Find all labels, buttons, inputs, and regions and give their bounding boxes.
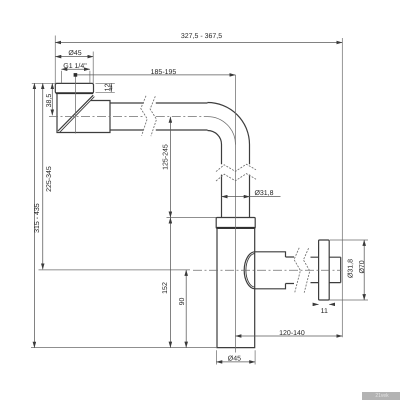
wedge diagonal 2 [60,97,95,133]
svg-text:185-195: 185-195 [151,69,177,76]
dim 125-245 [169,117,171,217]
elbow body [57,93,110,132]
svg-text:Ø70: Ø70 [358,260,366,273]
svg-text:Ø45: Ø45 [228,354,241,362]
inlet pipe bottom wire [110,129,208,131]
outlet pipe break zigzag 2 [303,248,309,293]
outlet nut dome outer arc [244,252,255,289]
vertical pipe left wire [221,175,223,218]
ext cup bottom right [254,350,256,364]
dim 315-435 [33,83,35,347]
dim 120-140 [236,335,343,337]
ext top-left vertical [54,36,56,84]
outlet pipe end edge [340,257,342,282]
elbow outer arc [208,103,250,165]
dim 90 [185,270,187,348]
cup body [217,228,255,347]
outlet pipe top wire [286,256,341,258]
dim 38,5 [51,83,53,115]
dim Ø31,8 tail [250,196,281,198]
outlet centerline [193,269,342,271]
watermark text [371,393,393,399]
vertical centerline [234,75,236,353]
wedge diagonal 1 [58,95,93,131]
svg-text:11: 11 [321,308,328,315]
dim 185-195 origin dot [74,73,78,77]
vertical pipe break zigzag 2 [216,174,256,181]
dim Ø31,8 vertical pipe [222,196,250,198]
vertical pipe break zigzag 1 [216,164,256,171]
elbow centerline arc [208,117,236,145]
svg-text:125-245: 125-245 [163,144,170,170]
dim 12 [110,83,112,92]
dim G1 1/4 [61,68,90,70]
dim 225-345 [42,83,44,269]
inlet pipe break zigzag 2 [150,96,156,136]
ext 12 bottom [96,91,115,93]
ext cup bottom left [215,350,217,364]
inlet pipe break zigzag 1 [141,96,147,136]
ext G left vertical [60,71,62,84]
svg-text:152: 152 [162,282,169,294]
ext flange top horizontal [32,82,56,84]
svg-text:38,5: 38,5 [46,94,53,108]
svg-text:327,5 - 367,5: 327,5 - 367,5 [181,33,222,40]
ext outlet axis horizontal [39,269,191,271]
dim Ø45 top [55,56,93,58]
svg-text:120-140: 120-140 [279,330,305,337]
cup lid thick bottom [217,227,255,229]
cup lid [216,218,255,229]
svg-text:12: 12 [105,83,112,91]
inlet pipe top wire [110,102,208,104]
ext rosette top [330,239,368,241]
svg-text:315 - 435: 315 - 435 [34,203,41,233]
ext G right vertical [89,71,91,84]
elbow inner arc [208,131,222,165]
dim 327,5-367,5 [55,42,342,44]
svg-text:Ø45: Ø45 [68,49,81,57]
ext wall vertical [341,38,343,337]
dim 11 right arrow [329,303,334,305]
inlet flange thick bottom [56,92,93,94]
wall rosette flange [319,240,330,300]
watermark plate bottom-right [362,392,400,401]
ext bottom horizontal [31,347,217,349]
svg-text:Ø31,8: Ø31,8 [254,189,273,197]
outlet pipe break zigzag 1 [294,248,300,292]
ext flange right vertical [92,52,94,84]
svg-text:90: 90 [179,298,186,306]
ext rosette bottom [330,299,369,301]
inlet vertical centerline [74,75,76,134]
dim 11 left arrow [314,303,319,305]
dim 152 [169,218,171,348]
dim Ø45 bottom [216,361,255,363]
inlet flange [55,83,93,93]
svg-text:G1 1/4": G1 1/4" [63,62,87,70]
outlet nut dome inner arc [246,253,255,287]
inlet centerline [49,116,208,118]
svg-text:Ø31,8: Ø31,8 [346,259,354,278]
outlet pipe bottom wire [286,282,341,285]
ext cup top horizontal [167,216,217,218]
dim Ø70 [363,240,365,300]
svg-text:225-345: 225-345 [46,166,53,192]
dim 185-195 [75,74,235,76]
vertical pipe right wire [249,175,251,218]
outlet nut body [255,252,286,289]
ext 12 top [96,82,115,84]
